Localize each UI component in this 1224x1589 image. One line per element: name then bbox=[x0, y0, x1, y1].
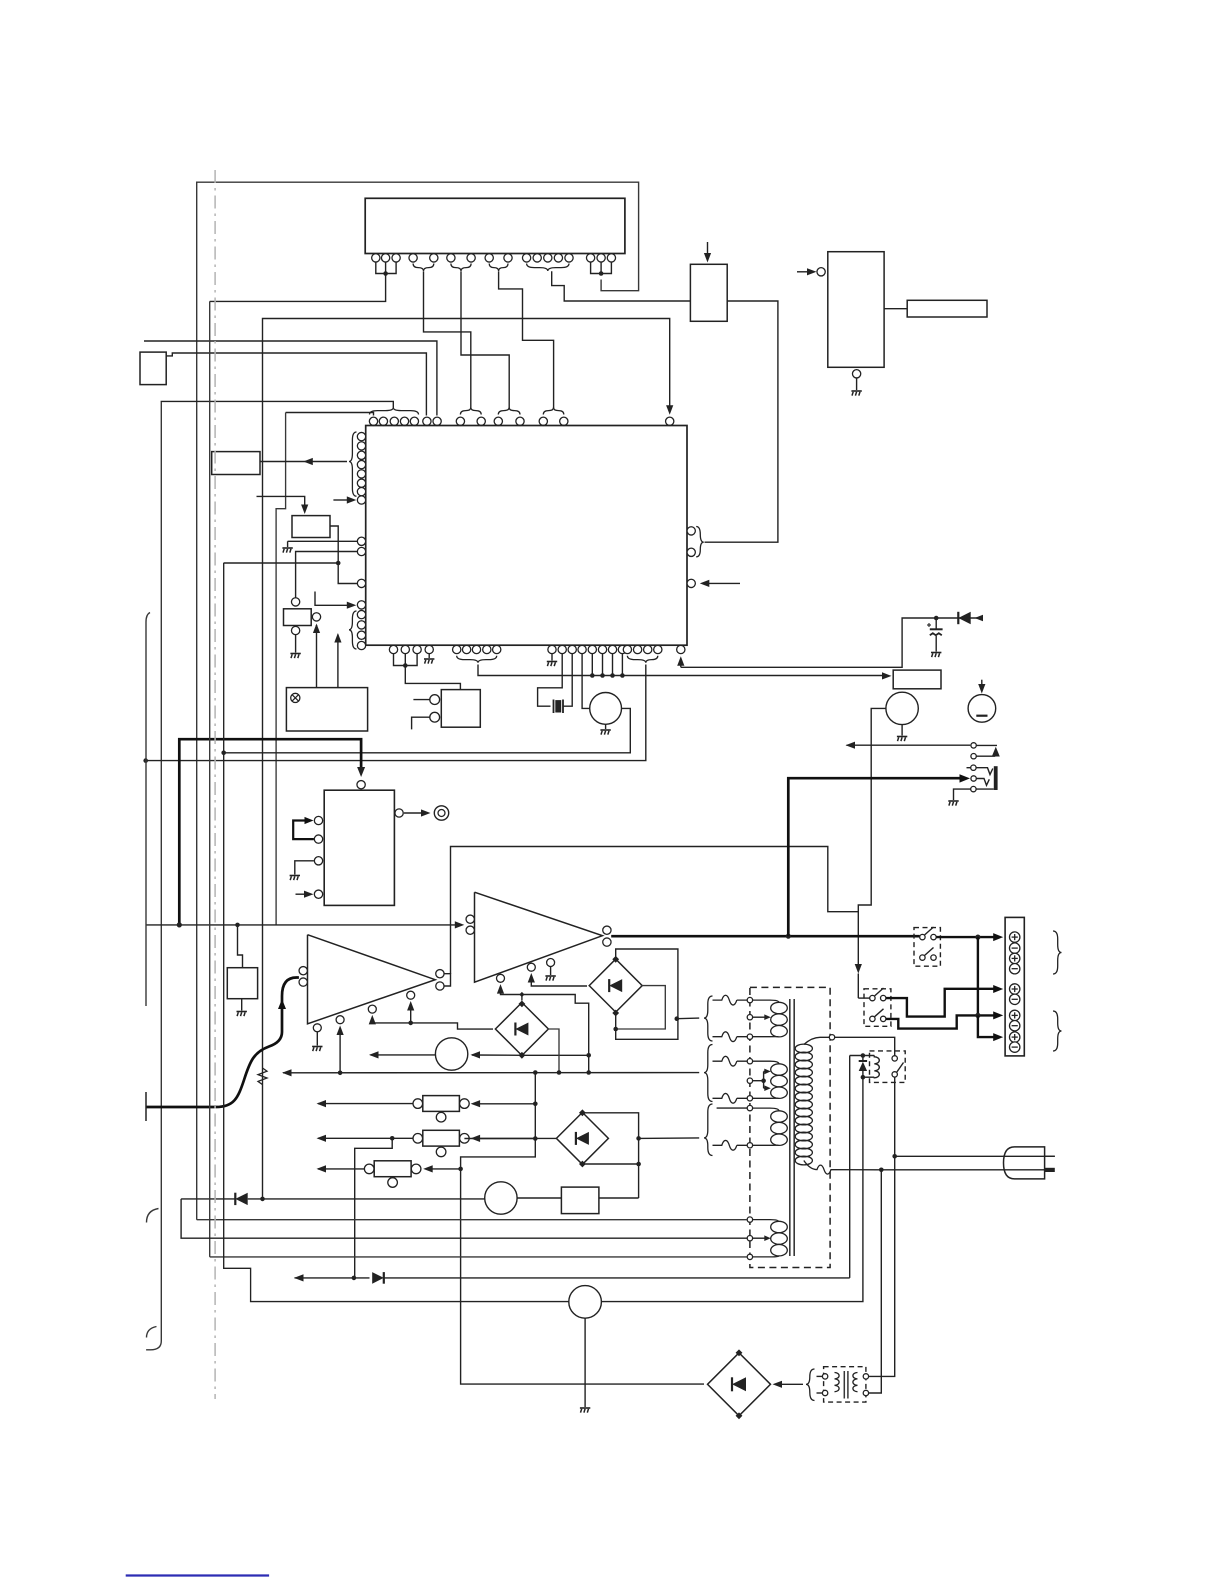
brace IC1 pins 6-7 bbox=[451, 264, 471, 272]
supply rail 2 vertical bbox=[209, 301, 211, 1257]
wire M3 left (arrow out) bbox=[369, 1051, 435, 1058]
T1 secondary coil bbox=[795, 1044, 812, 1165]
bridge rectifier BR1 bbox=[589, 956, 642, 1017]
T1 coil1 tap bbox=[753, 1014, 771, 1020]
U4 input pin bbox=[817, 268, 825, 276]
IC2 right pin pair bbox=[687, 527, 695, 557]
bridge rectifier BR2 bbox=[495, 1001, 548, 1059]
display/tuner block IC1 bbox=[365, 198, 625, 253]
wire frame top-left to display block bbox=[197, 182, 639, 1220]
wire IC1 group1 to left bus bbox=[210, 274, 386, 302]
wire A2 pin2 to bridge BR1 bbox=[531, 979, 587, 986]
headphone jack J1 contacts bbox=[971, 765, 977, 792]
P1 prong 1 bbox=[1045, 1155, 1055, 1157]
wire R3 right (arrow in) bbox=[423, 1165, 460, 1172]
margin hook C bbox=[147, 1327, 157, 1338]
wire K1 contact to plug live bbox=[892, 1077, 1054, 1158]
K1 contact bbox=[892, 1056, 904, 1077]
T1 secondary shield pin bbox=[829, 1035, 834, 1040]
brace T1 group2 bbox=[704, 1045, 713, 1102]
brace right of IC2 right pins bbox=[696, 527, 704, 557]
U7 left pin 2 bbox=[314, 835, 322, 843]
crystal filter U5 bbox=[907, 300, 987, 317]
K1 bottom node wiring bbox=[863, 1076, 874, 1078]
brace right of CN1 group3 bbox=[1053, 1011, 1062, 1051]
lamp box B2 bbox=[286, 688, 367, 731]
loop wire pin2 to pin1 (arrow) bbox=[293, 817, 314, 839]
wire group1 to box B3 bbox=[405, 666, 460, 690]
arrow U7 output bbox=[404, 809, 431, 816]
ground under M5 bbox=[580, 1318, 590, 1412]
T1 core bbox=[790, 999, 794, 1256]
wire relay supply riser A bbox=[849, 1056, 851, 1278]
main IC2 block bbox=[366, 426, 687, 646]
driver box B4 bbox=[893, 670, 941, 689]
inductor L1 on vertical bus bbox=[258, 1068, 267, 1085]
T1 primary coil 1 bbox=[753, 1000, 788, 1037]
wire A1 pins to bridge BR2 bbox=[372, 1023, 493, 1029]
drive motor M5 bbox=[569, 1286, 602, 1319]
wire S1b to connector bbox=[886, 1011, 1003, 1028]
brace over IC2 top-left pins bbox=[370, 408, 419, 415]
B3 left pads bbox=[430, 695, 440, 722]
T2 lead wires bbox=[817, 1376, 823, 1393]
T1 terminal pins bbox=[747, 997, 752, 1259]
P1 prong 2 bbox=[1045, 1168, 1055, 1172]
U7 left pin 4 bbox=[314, 890, 322, 898]
brace IC1 pins 8-9 bbox=[489, 264, 508, 272]
IC2 left pin 11 bbox=[357, 579, 365, 587]
governor box B7 bbox=[561, 1187, 599, 1214]
regulator box B6 bbox=[227, 968, 257, 999]
brace under group2 bbox=[457, 656, 497, 663]
wire U6 to brace (arrow) bbox=[260, 458, 347, 465]
reset block U3 bbox=[690, 264, 727, 321]
U7 left pin 1 bbox=[314, 816, 322, 824]
T1 secondary top lead bbox=[804, 1037, 829, 1044]
J1 sleeve bar bbox=[994, 766, 998, 790]
IC2 top pin pair B bbox=[494, 417, 524, 425]
A1 input pins bbox=[299, 967, 307, 987]
arrow into Q1 base from below bbox=[313, 624, 320, 688]
transistor Q1 base node bbox=[312, 613, 320, 621]
wire M4 to B7 bbox=[517, 1197, 561, 1199]
disc motor M1 bbox=[590, 693, 622, 725]
arrow up into A2 pin1 bbox=[497, 984, 504, 994]
input wire terminus bar bbox=[145, 1092, 147, 1121]
stub arrow into pin 26 bbox=[700, 580, 740, 587]
U7 left pin 3 bbox=[314, 857, 322, 865]
line filter T2 (dashed) bbox=[824, 1367, 866, 1402]
J1 spring contact upper bbox=[976, 768, 993, 775]
supply rail 4 with diode D3 bbox=[294, 1272, 850, 1284]
preamp A1 bbox=[308, 935, 436, 1024]
relay K1 (dashed) bbox=[870, 1051, 906, 1083]
wire U4 to U5 bbox=[884, 308, 907, 310]
IC2 bottom pins group2 bbox=[453, 645, 501, 653]
AC plug P1 body bbox=[1004, 1147, 1045, 1179]
S1 contact a bbox=[870, 988, 886, 1001]
wire top-left row A bbox=[144, 341, 437, 416]
crystal X1 bbox=[554, 700, 564, 714]
wire crystal to pin 572 bbox=[563, 654, 572, 707]
power block U4 bbox=[828, 252, 884, 368]
wire upper feed to IC2 pin1 bbox=[286, 413, 374, 416]
ground under M2 bbox=[897, 725, 907, 742]
J1 sleeve wire bbox=[976, 788, 994, 790]
brace left of lower pins bbox=[349, 611, 357, 649]
J1 spring contact mid bbox=[976, 779, 989, 786]
wire pin9 to ground bbox=[282, 541, 357, 552]
function switch S2 (dashed) bbox=[914, 928, 940, 967]
T2 core bbox=[844, 1371, 848, 1399]
IC2 left pin 9 bbox=[357, 537, 365, 545]
signal bus into amplifiers bbox=[146, 921, 464, 928]
diode D2 bbox=[958, 612, 970, 624]
IC2 bottom pins group3 bbox=[548, 645, 627, 653]
A1 bottom pin 4 bbox=[407, 991, 415, 999]
squiggle lead group3 bbox=[713, 1140, 748, 1150]
transistor Q1 collector node bbox=[291, 598, 299, 606]
margin vertical with hook bbox=[146, 613, 150, 1007]
supply rail 2 (to T1 pin) bbox=[181, 1199, 747, 1238]
stub arrow into pin 8 bbox=[333, 496, 356, 503]
wire IC1 group5 to box U3 bbox=[552, 271, 691, 301]
arrow into U4 input bbox=[797, 268, 817, 275]
squiggle leads group2 bbox=[713, 1056, 748, 1103]
IC2 top pins left group bbox=[369, 417, 441, 425]
power switch S1 (dashed) bbox=[864, 989, 891, 1027]
wire left feed to IC2 top brace bbox=[161, 401, 393, 407]
BR3 outer loop bbox=[582, 1113, 640, 1198]
mute box B1 bbox=[292, 516, 330, 538]
wire R2-chain to BR3 left corner bbox=[464, 1137, 556, 1139]
ground under M1 bbox=[600, 724, 610, 734]
wire R1 right (arrow in) bbox=[471, 1100, 536, 1107]
J1 ground wire bbox=[948, 789, 970, 806]
wire BR1 to transformer brace 1 bbox=[677, 1017, 699, 1020]
wire into B1 (arrow down) bbox=[257, 496, 309, 514]
IC1 pin-group bracket right (pins 15-17) bbox=[591, 262, 612, 276]
footer link rule bbox=[126, 1574, 269, 1576]
spindle motor M2 bbox=[886, 692, 918, 724]
arrowhead on D2 wire bbox=[975, 615, 984, 622]
U7 right pin bbox=[395, 809, 403, 817]
wire B1 to IC2 pin 11 bbox=[330, 526, 357, 584]
wire secondary to relay contact bbox=[835, 1037, 895, 1055]
wire pin10 to Q1 collector bbox=[296, 552, 358, 598]
headphone feed line bbox=[846, 742, 971, 749]
ground under pin 552 bbox=[547, 654, 557, 666]
T2 terminal pins bbox=[822, 1374, 868, 1396]
arrow up into A1 pin2 bbox=[337, 1026, 344, 1076]
indicator target symbol bbox=[434, 806, 448, 820]
U7 top pin bbox=[357, 781, 365, 789]
A1 bottom pin 2 bbox=[336, 1016, 344, 1024]
brace IC1 pins 10-14 bbox=[527, 264, 569, 272]
wire brace4 to BR4 bbox=[782, 1383, 804, 1385]
capstan motor M4 bbox=[485, 1182, 517, 1214]
ground under pin 429 bbox=[424, 654, 434, 664]
wire M2 to power switch S1 bbox=[858, 708, 886, 911]
wire K1 contact down to T2 bbox=[869, 1156, 895, 1376]
arrow into U3 top bbox=[704, 242, 711, 263]
regulator R3 bbox=[364, 1161, 421, 1187]
wire group4 to left margin bus bbox=[143, 665, 645, 763]
T1 primary coil 2 bbox=[753, 1061, 788, 1098]
transistor Q1 emitter node bbox=[291, 626, 299, 634]
IC2 bottom pins group1 bbox=[389, 645, 433, 653]
T2 coils bbox=[835, 1373, 858, 1392]
jack switch contact 1 bbox=[971, 743, 976, 748]
A1 bottom pin 3 bbox=[368, 1005, 376, 1013]
wire B7 to BR3 loop bbox=[599, 1197, 639, 1199]
T1 primary coil 4 bbox=[753, 1220, 788, 1257]
IC2 bottom pin 25 bbox=[677, 645, 685, 653]
A2 bottom pin 2 bbox=[527, 963, 535, 971]
speaker connector CN1 bbox=[1005, 917, 1024, 1056]
wire BR2 bottom to motor M3 (arrow) bbox=[471, 1051, 522, 1058]
left margin vertical jog bbox=[276, 413, 286, 925]
S2 contact b bbox=[920, 948, 937, 961]
wire BR3 to transformer brace 3 bbox=[639, 1137, 700, 1140]
A1 bottom pin 1 bbox=[313, 1024, 321, 1032]
IC2 left arrow pin 12 bbox=[357, 601, 365, 609]
left margin vertical (to bottom hook) bbox=[146, 403, 161, 1350]
center fold line (dash-dot) bbox=[214, 170, 216, 1399]
supply rail 3 full bbox=[210, 1256, 747, 1258]
supply rail 1 (to T1 pin) bbox=[197, 1219, 747, 1221]
supply bus to transformer brace 2 bbox=[282, 1069, 699, 1076]
wire pin25 bus to cap node bbox=[681, 616, 983, 668]
servo driver box B3 bbox=[441, 690, 480, 728]
arrow up into A1 pin4 bbox=[407, 1001, 414, 1025]
brace T1 group1 bbox=[704, 996, 713, 1041]
wire A2 pin1 to node bbox=[501, 990, 592, 1075]
wire R2 branch down bbox=[355, 1138, 393, 1278]
T1 coil4 tap bbox=[753, 1235, 771, 1241]
stub B3 pad2 bbox=[412, 717, 430, 729]
bridge rectifier BR4 bbox=[708, 1349, 771, 1419]
capacitor C1 (polarized) bbox=[927, 618, 943, 652]
A1 output pins bbox=[436, 970, 444, 991]
stub B3 pad1 bbox=[413, 699, 429, 701]
power amp A2 bbox=[475, 892, 603, 982]
wires pins 592-622 to bus bbox=[590, 654, 625, 678]
wire R3 left (arrow) bbox=[317, 1165, 365, 1172]
brace IC1 pins 4-5 bbox=[413, 264, 434, 272]
brace left of IC2 left pins bbox=[349, 432, 357, 496]
ground under A2 pin3 bbox=[545, 967, 555, 981]
ground under U4 bbox=[851, 378, 861, 396]
wire BR2 bottom to node bbox=[522, 1054, 589, 1056]
wire pin 562 to crystal bbox=[538, 654, 563, 707]
wire pin3 to ground bbox=[290, 861, 314, 880]
wire bus to IC2 pin 24 (long) bbox=[263, 319, 674, 1199]
A2 bottom pin 1 bbox=[497, 974, 505, 982]
IC2 left pin 10 bbox=[357, 547, 365, 555]
thick wire left bus to U7 pin bbox=[177, 739, 365, 927]
servo box U6 bbox=[212, 452, 260, 475]
J1 stub bbox=[967, 767, 971, 769]
wire IC1 group2 to IC2 brace bbox=[424, 271, 471, 408]
wire group2 to box B4 (arrow) bbox=[478, 665, 892, 680]
wire R1 left (arrow) bbox=[317, 1100, 413, 1107]
ground under C1 bbox=[931, 653, 941, 658]
diode D1 bbox=[235, 1193, 247, 1205]
BR1 outer loop bbox=[616, 949, 679, 1039]
wire S2 to connector pin1 bbox=[936, 933, 1003, 941]
ground under A1 pin1 bbox=[312, 1032, 322, 1051]
BR1 inner loop bbox=[613, 986, 665, 1032]
wire left bus to junction bbox=[224, 562, 339, 564]
branch to bridge BR1 top bbox=[519, 992, 524, 1001]
mechanism control block U7 bbox=[324, 790, 394, 905]
A2 input pins bbox=[466, 915, 474, 934]
wire S1a to connector bbox=[886, 985, 1003, 1017]
wire bus down to bridge BR4 bbox=[458, 1073, 704, 1385]
brace over pair B bbox=[498, 408, 520, 415]
wire plug neutral down to T2 bbox=[869, 1170, 882, 1393]
arrow up into pin 25 bbox=[677, 656, 684, 667]
brace over pair A bbox=[460, 408, 481, 415]
jack tip contact bbox=[976, 745, 999, 756]
jack switch contact 2 bbox=[971, 754, 976, 759]
wire IC1 group4 to IC2 brace bbox=[499, 271, 554, 408]
K1 coil bbox=[874, 1056, 879, 1078]
S1 contact b bbox=[870, 1009, 886, 1022]
thick output wire A2 to switch S2 bbox=[611, 934, 919, 939]
bracket under group1 bbox=[394, 654, 418, 668]
wire pin 582 to motor M1 bbox=[582, 654, 590, 709]
IC2 bottom pins group4 bbox=[623, 645, 662, 653]
wire U3 to IC2 right-pin brace bbox=[705, 301, 778, 542]
wire B6 to bus bbox=[238, 925, 243, 968]
brace right of CN1 group1 bbox=[1053, 931, 1062, 974]
IC2 top pin 24 bbox=[666, 417, 674, 425]
IC2 right pin 26 bbox=[687, 579, 695, 587]
arrow up into A1 pin3 bbox=[369, 1015, 376, 1025]
IC2 left arrow pin 8 bbox=[357, 496, 365, 504]
lamp symbol in B2 bbox=[291, 693, 300, 702]
IC2 top pin pair A bbox=[456, 417, 485, 425]
arrow into BR4 right corner bbox=[773, 1381, 783, 1388]
wire M1 to left bus bbox=[221, 708, 630, 755]
brace under group4 bbox=[627, 656, 657, 663]
margin hook B bbox=[147, 1209, 159, 1223]
wire relay supply riser B bbox=[602, 1077, 863, 1301]
transistor Q1 body bbox=[284, 609, 312, 626]
K1 top node wiring bbox=[850, 1055, 875, 1057]
wire staircase to motor M5 bbox=[224, 563, 569, 1302]
wire A2 output to headphone jack bbox=[788, 774, 970, 936]
regulator R1 bbox=[413, 1096, 469, 1122]
wire R2 right (arrow in) bbox=[471, 1135, 536, 1142]
IC1 pins bottom row bbox=[372, 254, 616, 262]
T1 coil2 dual tap bbox=[753, 1069, 771, 1091]
squiggle leads group1 bbox=[713, 995, 748, 1041]
IC2 left pins group (lower 4) bbox=[357, 610, 365, 649]
stub arrow into pin 12 bbox=[315, 592, 356, 609]
wire lamp box to brace (arrow up) bbox=[334, 633, 341, 688]
IC2 top pin pair C bbox=[539, 417, 568, 425]
T1 secondary bottom lead bbox=[804, 1161, 877, 1175]
S2 contact a bbox=[920, 927, 937, 940]
lead group3 upper bbox=[717, 1107, 748, 1109]
IC2 left pins group (7) bbox=[357, 432, 365, 495]
wire BR2 right corner down bbox=[548, 1029, 562, 1075]
brace T2 leads bbox=[806, 1369, 815, 1401]
feedback wire A1 output to S1 bbox=[444, 847, 869, 999]
flyback diode D5 bbox=[859, 1053, 867, 1079]
IC1 pin-group bracket left (pins 1-3) bbox=[376, 262, 396, 276]
wire secondary bottom to plug bbox=[877, 1168, 1045, 1173]
wire Q1 emitter to ground bbox=[290, 635, 300, 658]
wire top-left row B bbox=[166, 353, 426, 416]
bridge rectifier BR3 bbox=[556, 1109, 608, 1167]
arrow into pin 4 bbox=[296, 891, 314, 898]
battery indicator B5 bbox=[968, 695, 996, 723]
wire IC1 group3 to IC2 brace bbox=[461, 271, 509, 408]
brace over pair C bbox=[543, 408, 564, 415]
A2 output pins bbox=[603, 926, 611, 946]
U4 bottom pin bbox=[852, 370, 860, 378]
wire R2 left (arrow) bbox=[317, 1135, 413, 1142]
ground under B6 bbox=[237, 999, 247, 1016]
thick input wire into A1 bbox=[146, 978, 299, 1108]
loading motor M3 bbox=[435, 1038, 467, 1070]
arrow up into A2 pin2 bbox=[528, 973, 535, 983]
link wire S2-S1 outputs bbox=[977, 937, 979, 1015]
T1 primary coil 3 bbox=[753, 1108, 788, 1145]
arrow into B5 top bbox=[978, 680, 985, 694]
supply wire with D1 bbox=[181, 1197, 485, 1202]
CN1 terminal pins bbox=[1010, 932, 1020, 1052]
transformer T1 shield (dashed) bbox=[750, 987, 830, 1267]
wire S1b branch to connector pin bbox=[978, 1015, 1003, 1041]
A2 bottom pin 3 bbox=[547, 959, 555, 967]
brace T1 group3 bbox=[704, 1104, 713, 1156]
regulator R2 bbox=[413, 1130, 469, 1156]
connector stub box J0 bbox=[140, 352, 166, 385]
